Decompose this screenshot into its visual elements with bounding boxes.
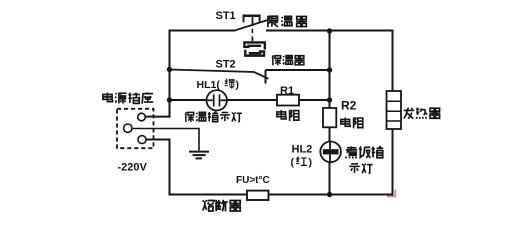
svg-text:): )	[236, 79, 240, 91]
svg-text:FU>t: FU>t	[236, 175, 259, 186]
svg-text:HL2: HL2	[292, 144, 313, 156]
svg-text:): )	[309, 157, 313, 169]
svg-text:R2: R2	[341, 99, 357, 113]
svg-text:ST2: ST2	[216, 59, 236, 71]
svg-text:ST1: ST1	[216, 10, 236, 22]
svg-text:R1: R1	[280, 85, 294, 97]
svg-text:(: (	[291, 157, 295, 169]
svg-text:°C: °C	[259, 175, 270, 186]
svg-text:HL1(: HL1(	[197, 79, 221, 91]
svg-text:-220V: -220V	[118, 162, 148, 174]
